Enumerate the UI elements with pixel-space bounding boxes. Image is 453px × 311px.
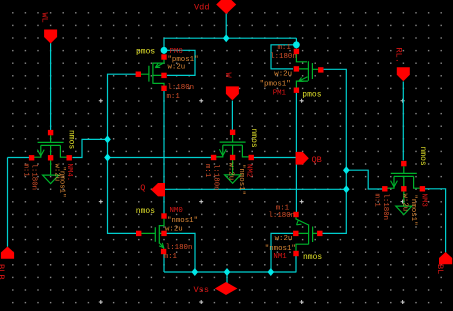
svg-text:w:2u: w:2u (227, 163, 235, 181)
pin WL (44, 30, 57, 44)
wire RL to NM3 gate (402, 82, 404, 161)
svg-text:w:2u: w:2u (165, 226, 183, 234)
svg-text:NM2: NM2 (245, 164, 253, 177)
wire Vss rail (164, 271, 296, 273)
node right gate net junction to NM3 (343, 166, 350, 174)
nmos NM2 (center) (211, 130, 254, 184)
wire Vss pin stub (226, 272, 228, 284)
node left gate net lower junction (104, 154, 111, 162)
node PM1 bulk-source junction (293, 41, 300, 48)
svg-text:l:180n: l:180n (270, 53, 297, 61)
svg-text:l:180n: l:180n (212, 164, 220, 191)
node Vdd rail junction (223, 34, 230, 42)
svg-text:QB: QB (312, 155, 322, 165)
svg-text:l:180n: l:180n (30, 164, 38, 191)
node PM0 bulk-source junction (161, 47, 168, 54)
svg-text:l:180n: l:180n (381, 194, 389, 221)
svg-text:l:180n: l:180n (166, 244, 193, 252)
svg-text:m:1: m:1 (22, 164, 30, 178)
wire NM3 right terminal to BL (424, 189, 446, 253)
svg-text:"nmos1": "nmos1" (409, 195, 417, 226)
pmos PM0 (136, 54, 167, 91)
pin BL (439, 252, 452, 264)
svg-text:m:1: m:1 (373, 194, 381, 208)
wire PM0 source from rail (163, 38, 165, 54)
node Vss rail junction NM0 bulk (192, 268, 199, 276)
svg-text:w:2u: w:2u (401, 194, 409, 212)
pmos PM1 (294, 49, 324, 93)
wire NM0 source to Vss rail (163, 254, 165, 272)
svg-text:BLB: BLB (0, 264, 6, 279)
pin QB (296, 152, 309, 165)
svg-text:BL: BL (435, 264, 445, 274)
nmos NM0 (136, 213, 167, 254)
svg-text:w:2u: w:2u (275, 235, 293, 243)
svg-text:NM0: NM0 (170, 207, 183, 215)
wire QB vertical PM1 drain to NM1 drain (295, 93, 297, 212)
svg-text:nmos: nmos (303, 253, 322, 262)
wire right gate net to NM3 left terminal (346, 170, 383, 189)
svg-text:nmos: nmos (67, 130, 76, 149)
svg-text:NM3: NM3 (420, 194, 428, 207)
nmos NM1 (293, 212, 322, 256)
wire NM2 right terminal to QB node (253, 157, 296, 159)
wire Vdd pin stub (225, 12, 227, 38)
svg-text:nmos: nmos (249, 129, 258, 148)
wire right gate net vertical PM1 gate to NM1 gate (323, 69, 347, 233)
node right gate net junction cross wire (343, 185, 350, 193)
svg-text:nmos: nmos (418, 147, 427, 166)
wire left gate net: PM0 gate / NM0 gate vertical (108, 74, 137, 233)
wire PM1 source drop from rail (295, 38, 297, 48)
wire NM4 drain jog to gate net (73, 139, 108, 157)
svg-text:"nmos1": "nmos1" (58, 167, 66, 198)
pin Vdd (216, 0, 236, 14)
svg-text:PM1: PM1 (273, 89, 287, 97)
wire PM0 bulk loop (167, 50, 196, 75)
svg-text:"nmos1": "nmos1" (265, 245, 296, 253)
pin W (226, 86, 239, 100)
wire NM1 bulk to Vss rail (271, 233, 293, 272)
wire Q vertical PM0 drain to NM0 drain (163, 91, 165, 214)
svg-text:"nmos1": "nmos1" (167, 217, 198, 225)
nmos NM4 (access, left) (29, 130, 72, 184)
svg-text:Vdd: Vdd (194, 3, 209, 13)
svg-text:m:1: m:1 (167, 93, 181, 101)
pin Vss (215, 282, 238, 295)
svg-text:w:2u: w:2u (274, 71, 292, 79)
wire W pin to NM2 gate (231, 101, 233, 130)
pin RL (397, 67, 410, 81)
node Vss rail junction NM1 bulk (268, 268, 275, 276)
svg-text:m:1: m:1 (164, 253, 178, 261)
svg-text:W: W (223, 73, 233, 79)
node Vss rail junction pin (224, 268, 231, 276)
svg-text:nmos: nmos (136, 207, 155, 216)
svg-text:NM1: NM1 (273, 253, 287, 261)
wire PM1 bulk loop (271, 45, 294, 69)
svg-text:l:180n: l:180n (168, 84, 195, 92)
svg-text:m:1: m:1 (203, 164, 211, 178)
pin Q (151, 183, 165, 196)
svg-text:NM4.: NM4. (65, 164, 73, 182)
svg-text:"nmos1": "nmos1" (237, 164, 245, 195)
svg-text:"pmos1": "pmos1" (260, 80, 291, 88)
svg-text:pmos: pmos (136, 48, 155, 57)
nmos NM3 (access, right) (382, 161, 425, 215)
wire NM1 source to Vss rail (295, 256, 297, 272)
svg-text:Vss: Vss (194, 285, 209, 295)
svg-text:WL: WL (40, 13, 50, 23)
wire gate net to NM2 left terminal (108, 157, 212, 159)
wire WL to NM4 gate (50, 43, 52, 130)
wire BLB to NM4 left terminal (8, 158, 30, 247)
wire NM0 bulk to Vss rail (167, 233, 196, 272)
svg-text:l:180n: l:180n (269, 212, 296, 220)
node left gate net upper junction (104, 135, 111, 143)
svg-text:RL.: RL. (394, 48, 404, 63)
wire Q cross-coupling to right gates (164, 188, 346, 190)
wire Vdd rail (164, 37, 296, 39)
svg-text:pmos: pmos (302, 91, 321, 100)
svg-text:w:2u: w:2u (168, 63, 186, 71)
svg-text:Q: Q (140, 183, 145, 193)
svg-text:m:1: m:1 (278, 44, 292, 52)
svg-text:PM0: PM0 (170, 48, 183, 56)
pin BLB (1, 247, 14, 259)
